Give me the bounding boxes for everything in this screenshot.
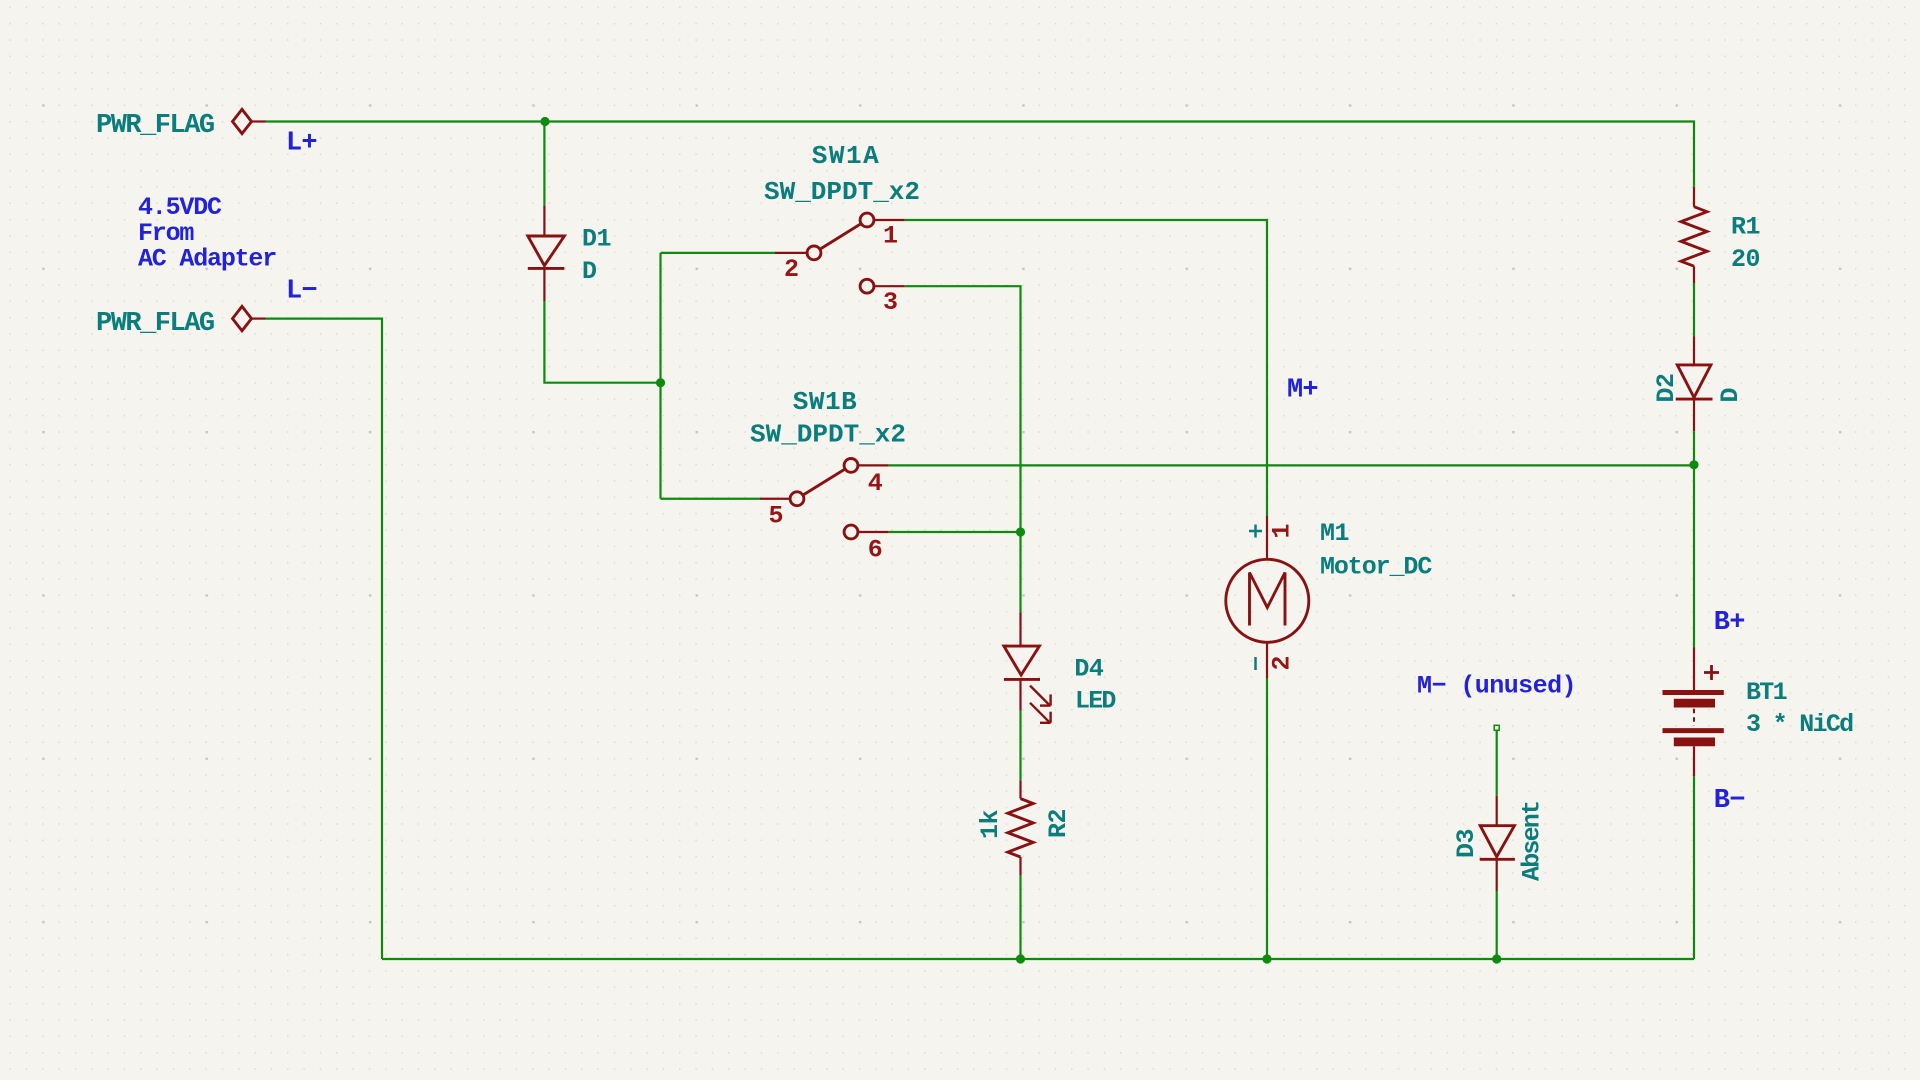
- svg-text:R1: R1: [1731, 213, 1760, 242]
- svg-text:L+: L+: [286, 129, 317, 159]
- battery BT1: [1663, 648, 1724, 777]
- junction LED branch: [1016, 527, 1025, 536]
- svg-text:L−: L−: [286, 277, 317, 307]
- svg-text:20: 20: [1731, 245, 1760, 274]
- svg-text:AC Adapter: AC Adapter: [138, 245, 276, 274]
- svg-text:D: D: [582, 257, 597, 286]
- junction switch common node: [656, 378, 665, 387]
- wire SW1A pin1 to motor plus: [905, 220, 1267, 516]
- wire D4 to R2: [1019, 711, 1021, 781]
- svg-text:LED: LED: [1075, 687, 1116, 716]
- svg-text:M+: M+: [1287, 376, 1318, 406]
- wire switch common vertical: [659, 253, 661, 499]
- svg-text:4.5VDC: 4.5VDC: [138, 193, 222, 222]
- svg-text:Motor_DC: Motor_DC: [1320, 553, 1432, 582]
- junction bus at D3: [1492, 954, 1501, 963]
- svg-text:SW_DPDT_x2: SW_DPDT_x2: [750, 420, 906, 450]
- junction B+ node: [1689, 460, 1698, 469]
- wire R1 to D2: [1693, 283, 1695, 337]
- wire to SW1A pin 2: [661, 252, 776, 254]
- svg-text:2: 2: [784, 255, 799, 284]
- svg-text:D4: D4: [1074, 654, 1104, 683]
- svg-text:4: 4: [868, 469, 883, 498]
- svg-text:D2: D2: [1652, 373, 1681, 402]
- power flag PWR_FLAG (L+): [96, 109, 266, 141]
- svg-text:PWR_FLAG: PWR_FLAG: [96, 111, 214, 141]
- LED D4: [1004, 613, 1051, 723]
- resistor R1: [1681, 187, 1707, 283]
- svg-text:3 * NiCd: 3 * NiCd: [1746, 710, 1853, 739]
- svg-text:SW_DPDT_x2: SW_DPDT_x2: [764, 177, 920, 207]
- diode D2: [1676, 337, 1713, 432]
- wire D2 to B+ node: [1693, 431, 1695, 465]
- svg-text:M1: M1: [1320, 519, 1349, 548]
- wire D1 cathode to switch common: [544, 301, 660, 383]
- svg-text:1: 1: [883, 222, 898, 251]
- wire L- to bottom bus: [266, 319, 383, 959]
- switch SW1B: [760, 459, 889, 539]
- svg-text:3: 3: [883, 288, 898, 317]
- svg-text:1: 1: [1268, 523, 1297, 538]
- diode D3: [1480, 796, 1515, 891]
- wire R2 to bottom bus: [1019, 875, 1021, 959]
- power flag PWR_FLAG (L-): [96, 306, 266, 339]
- motor M1: [1226, 516, 1309, 678]
- junction bus at motor: [1262, 954, 1271, 963]
- diode D1: [528, 206, 565, 301]
- svg-text:From: From: [138, 219, 194, 248]
- wire bottom bus: [382, 958, 1694, 960]
- svg-text:D1: D1: [582, 225, 611, 254]
- junction bus at R2: [1016, 954, 1025, 963]
- svg-text:SW1B: SW1B: [793, 387, 857, 417]
- wire D1 anode from L+: [543, 122, 545, 206]
- svg-text:D3: D3: [1452, 829, 1481, 858]
- svg-text:R2: R2: [1044, 809, 1073, 838]
- wire battery to bottom bus: [1693, 776, 1695, 959]
- wire L+ top bus: [266, 122, 1695, 187]
- svg-text:Absent: Absent: [1518, 802, 1547, 881]
- svg-text:M− (unused): M− (unused): [1417, 672, 1576, 701]
- no-connect square: [1494, 725, 1499, 730]
- svg-text:2: 2: [1268, 655, 1297, 670]
- wire SW1A pin3 to LED branch: [905, 286, 1021, 612]
- svg-text:SW1A: SW1A: [812, 141, 880, 171]
- wire motor to bottom bus: [1266, 678, 1268, 959]
- svg-text:5: 5: [769, 502, 784, 531]
- text note 4.5VDC From AC Adapter: [138, 193, 276, 274]
- svg-text:BT1: BT1: [1746, 678, 1787, 707]
- svg-text:6: 6: [868, 536, 883, 565]
- svg-text:B+: B+: [1714, 608, 1745, 638]
- wire D3 to bottom bus: [1496, 891, 1498, 959]
- svg-text:B−: B−: [1714, 786, 1745, 816]
- wire M- stub to D3: [1496, 730, 1498, 795]
- svg-text:1k: 1k: [976, 809, 1005, 839]
- switch SW1A: [775, 213, 905, 293]
- wire SW1B pin6 to LED branch: [889, 531, 1021, 533]
- wire SW1B pin4 to B+ node: [889, 464, 1694, 466]
- svg-text:PWR_FLAG: PWR_FLAG: [96, 309, 214, 339]
- junction L+ / D1: [540, 117, 549, 126]
- resistor R2: [1008, 781, 1033, 875]
- wire to SW1B pin 5: [661, 498, 761, 500]
- wire B+ node to battery: [1693, 465, 1695, 648]
- svg-text:D: D: [1716, 388, 1745, 403]
